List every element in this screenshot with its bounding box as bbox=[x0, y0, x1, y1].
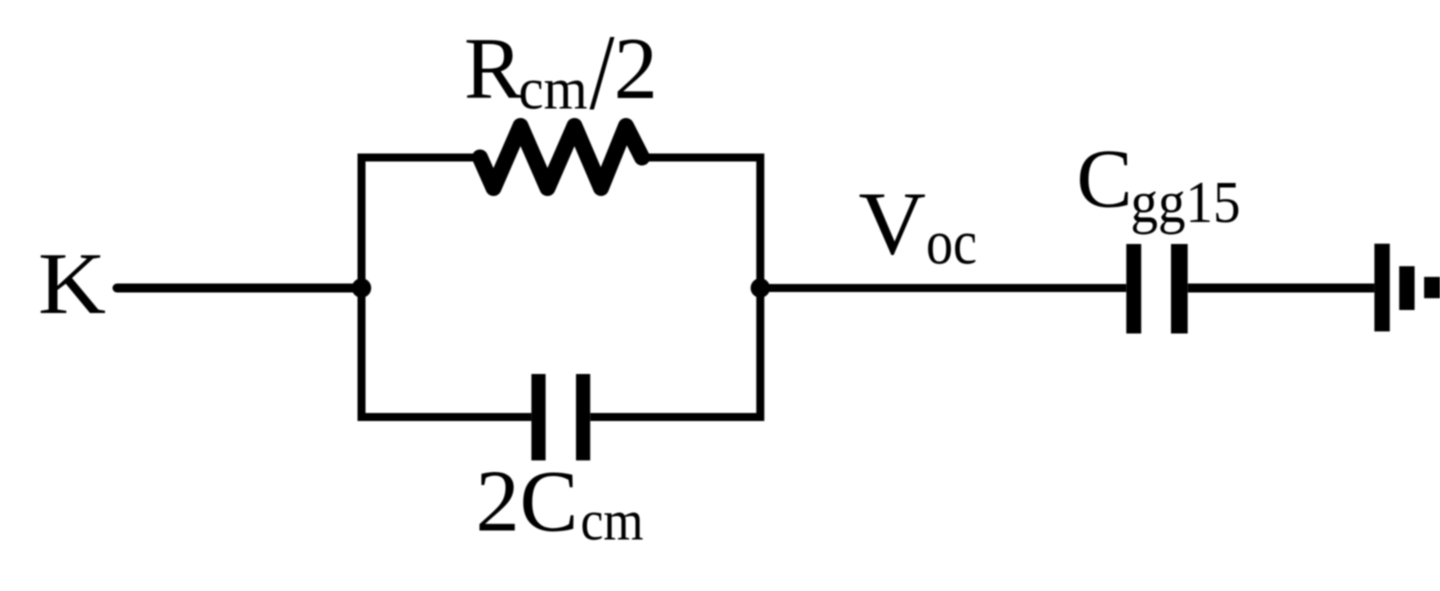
wire: parallel-box left vertical bbox=[358, 158, 366, 418]
junction dot right bbox=[751, 278, 770, 297]
svg-text:/: / bbox=[590, 14, 615, 133]
svg-text:2: 2 bbox=[614, 21, 658, 118]
wire: parallel-box right vertical bbox=[756, 158, 764, 418]
capacitor 2C_cm left plate bbox=[531, 374, 545, 460]
svg-text:2C: 2C bbox=[476, 454, 579, 551]
svg-text:K: K bbox=[38, 236, 106, 333]
svg-text:C: C bbox=[1077, 133, 1133, 226]
capacitor 2C_cm right plate bbox=[576, 374, 590, 460]
svg-text:cm: cm bbox=[519, 56, 588, 122]
resistor R_cm/2 zigzag bbox=[480, 126, 642, 188]
wire from right junction to C_gg15 bbox=[760, 284, 1126, 292]
svg-text:V: V bbox=[859, 175, 927, 274]
capacitor C_gg15 left plate bbox=[1126, 244, 1141, 334]
wire from C_gg15 to ground bbox=[1188, 284, 1375, 293]
svg-text:oc: oc bbox=[926, 207, 977, 278]
wire: bottom-right segment from capacitor bbox=[590, 413, 760, 421]
ground bar 2 (middle) bbox=[1399, 266, 1414, 310]
svg-text:R: R bbox=[464, 21, 523, 118]
wire: bottom-left segment to capacitor bbox=[362, 413, 532, 421]
wire from K to left junction bbox=[117, 284, 362, 293]
ground bar 1 (largest) bbox=[1374, 244, 1389, 332]
svg-text:cm: cm bbox=[581, 490, 644, 553]
junction dot left bbox=[352, 278, 371, 297]
svg-text:gg15: gg15 bbox=[1131, 169, 1241, 235]
ground bar 3 (smallest) bbox=[1424, 277, 1440, 298]
wire: top-right segment from resistor bbox=[641, 154, 760, 162]
capacitor C_gg15 right plate bbox=[1171, 244, 1188, 334]
wire: top-left segment to resistor bbox=[362, 154, 482, 162]
